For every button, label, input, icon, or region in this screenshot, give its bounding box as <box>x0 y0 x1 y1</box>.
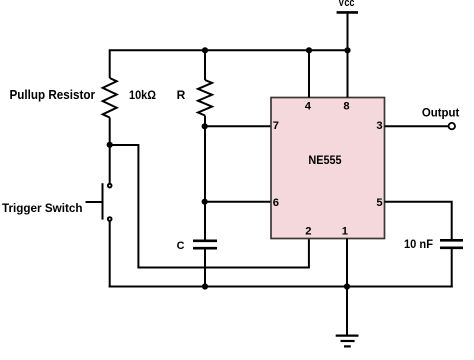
svg-text:Pullup Resistor: Pullup Resistor <box>10 88 96 102</box>
svg-text:4: 4 <box>305 101 312 113</box>
node junction C/rail <box>202 283 208 289</box>
IC U1 NE555 body <box>271 98 385 239</box>
wire to pin 6 <box>205 201 271 203</box>
wire capacitor C bottom to rail <box>204 249 206 287</box>
capacitor C <box>193 241 217 248</box>
wire pullup resistor bottom to switch node <box>109 118 111 184</box>
svg-text:8: 8 <box>343 101 349 113</box>
wire pin 3 to output terminal <box>385 125 449 127</box>
pin 8 stub <box>347 50 349 98</box>
svg-text:6: 6 <box>273 197 279 209</box>
node junction R top / top rail <box>202 47 208 53</box>
svg-text:10 nF: 10 nF <box>404 239 433 251</box>
wire bottom ground rail <box>109 286 453 288</box>
output terminal circle <box>449 123 455 129</box>
wire pin 1 stub to ground <box>346 239 348 336</box>
node junction pin1/rail <box>344 283 350 289</box>
pin 4 stub <box>308 50 310 97</box>
svg-text:R: R <box>177 88 186 102</box>
wire capacitor C2 bottom to rail <box>451 249 453 288</box>
resistor R1 (pullup 10k) <box>103 78 117 118</box>
svg-text:7: 7 <box>273 120 279 132</box>
svg-text:3: 3 <box>376 120 382 132</box>
capacitor C2 10nF <box>440 240 463 248</box>
svg-text:1: 1 <box>342 225 348 237</box>
svg-text:2: 2 <box>305 225 311 237</box>
Vcc supply symbol <box>337 12 358 50</box>
node junction pin8/Vcc <box>344 47 350 53</box>
wire R bottom to capacitor C <box>204 116 206 240</box>
node junction pin6 <box>202 199 208 205</box>
node junction pin4/rail <box>306 47 312 53</box>
wire trigger node to pin 2 <box>110 145 309 268</box>
svg-text:Vcc: Vcc <box>338 0 354 9</box>
svg-text:NE555: NE555 <box>308 154 342 167</box>
wire top rail from pullup resistor to Vcc junction <box>110 50 348 78</box>
resistor R <box>198 80 212 116</box>
node junction R/pin7 <box>202 123 208 129</box>
ground <box>336 336 359 347</box>
svg-text:C: C <box>177 240 185 252</box>
node junction resistor/switch/trigger wire <box>107 142 113 148</box>
wire to pin 7 <box>205 125 271 127</box>
svg-text:Output: Output <box>422 107 460 119</box>
switch S1 trigger pushbutton <box>86 183 112 221</box>
wire top rail to resistor R <box>204 50 206 80</box>
wire switch bottom to ground rail <box>109 222 111 288</box>
wire pin 5 to capacitor C2 <box>385 202 452 240</box>
svg-text:10kΩ: 10kΩ <box>129 88 156 102</box>
svg-text:5: 5 <box>376 197 382 209</box>
svg-text:Trigger Switch: Trigger Switch <box>2 201 83 215</box>
